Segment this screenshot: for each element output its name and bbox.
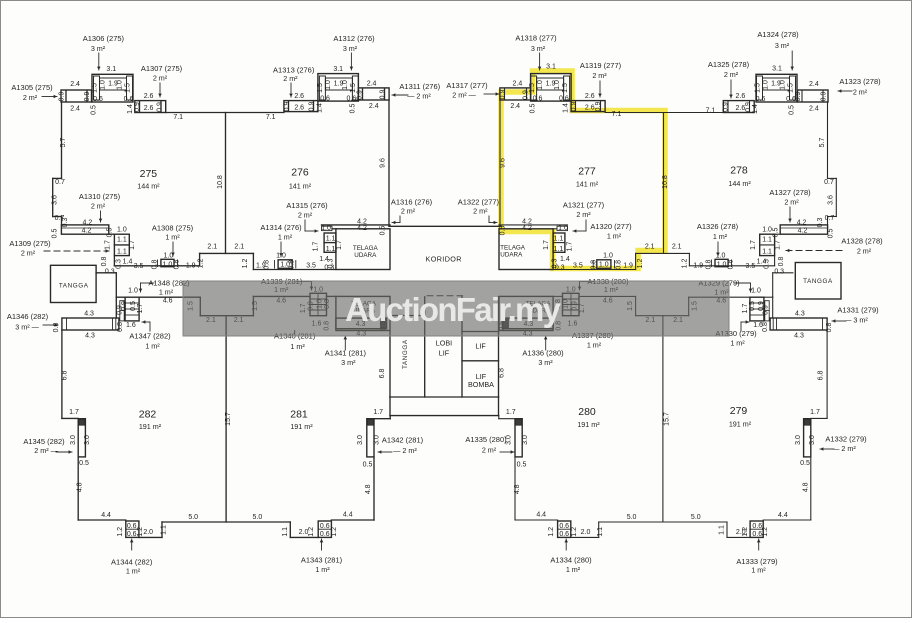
svg-text:TANGGA: TANGGA [59, 283, 89, 290]
svg-text:1 m²: 1 m² [278, 233, 293, 242]
svg-text:LIF: LIF [439, 349, 450, 358]
svg-text:KORIDOR: KORIDOR [426, 255, 462, 264]
highlight unit 277 [501, 71, 665, 269]
svg-text:— 2 m²: — 2 m² [407, 92, 431, 101]
svg-text:275: 275 [140, 168, 158, 180]
svg-text:2 m²: 2 m² [592, 71, 607, 80]
svg-text:0.6: 0.6 [93, 96, 103, 103]
svg-text:1.2: 1.2 [198, 259, 205, 269]
svg-text:0.5: 0.5 [91, 105, 98, 115]
svg-text:0.6: 0.6 [320, 96, 330, 103]
svg-text:2.4: 2.4 [809, 81, 819, 88]
svg-text:2.6: 2.6 [144, 105, 154, 112]
svg-text:1.0: 1.0 [128, 287, 138, 294]
svg-text:— 2 m²: — 2 m² [832, 444, 856, 453]
svg-text:0.3: 0.3 [555, 265, 565, 272]
svg-text:2.1: 2.1 [234, 244, 244, 251]
svg-text:0.8: 0.8 [117, 322, 124, 332]
svg-text:3 m² —: 3 m² — [15, 323, 39, 332]
svg-text:1.0: 1.0 [117, 227, 127, 234]
svg-text:0.8: 0.8 [826, 323, 833, 333]
svg-text:1.0: 1.0 [342, 80, 349, 90]
svg-text:3.5: 3.5 [746, 263, 756, 270]
svg-text:1 m²: 1 m² [713, 232, 728, 241]
svg-text:1.1: 1.1 [762, 237, 772, 244]
svg-text:5.0: 5.0 [691, 514, 701, 521]
svg-text:1.7: 1.7 [69, 409, 79, 416]
svg-text:0.6: 0.6 [347, 96, 357, 103]
svg-text:AuctionFair.my: AuctionFair.my [345, 291, 562, 328]
svg-text:1.5: 1.5 [317, 83, 324, 93]
svg-text:282: 282 [139, 409, 157, 421]
svg-text:0.5: 0.5 [517, 462, 527, 469]
svg-text:2 m²: 2 m² [724, 70, 739, 79]
svg-text:0.3: 0.3 [105, 269, 115, 276]
svg-text:1.7: 1.7 [313, 242, 320, 252]
svg-text:9.6: 9.6 [500, 158, 507, 168]
svg-text:1.7: 1.7 [373, 409, 383, 416]
svg-text:1.0: 1.0 [751, 287, 761, 294]
svg-text:0.5: 0.5 [500, 226, 507, 236]
svg-text:0.9: 0.9 [821, 92, 828, 102]
svg-text:0.9: 0.9 [380, 90, 387, 100]
svg-text:10.8: 10.8 [217, 175, 224, 189]
svg-text:A1346 (282): A1346 (282) [7, 312, 49, 321]
svg-text:0.5: 0.5 [800, 460, 810, 467]
svg-text:144 m²: 144 m² [728, 179, 751, 188]
svg-text:A1306 (275): A1306 (275) [83, 34, 125, 43]
svg-text:1.0: 1.0 [558, 225, 568, 232]
svg-text:9.6: 9.6 [380, 158, 387, 168]
svg-text:1.0: 1.0 [163, 261, 173, 268]
svg-text:1.5: 1.5 [125, 83, 132, 93]
svg-text:A1336 (280): A1336 (280) [522, 349, 564, 358]
svg-text:2.6: 2.6 [585, 93, 595, 100]
svg-text:1.1: 1.1 [117, 249, 127, 256]
svg-text:1 m²: 1 m² [587, 341, 602, 350]
svg-text:3 m²: 3 m² [531, 44, 546, 53]
svg-text:1.2: 1.2 [242, 259, 249, 269]
svg-text:2.4: 2.4 [369, 103, 379, 110]
svg-text:4.8: 4.8 [76, 482, 83, 492]
svg-text:1.0: 1.0 [603, 252, 613, 259]
svg-text:7.1: 7.1 [173, 114, 183, 121]
svg-text:0.8: 0.8 [728, 260, 735, 270]
svg-text:1.5: 1.5 [529, 83, 536, 93]
svg-text:0.3: 0.3 [62, 218, 69, 228]
svg-text:0.6: 0.6 [124, 96, 134, 103]
svg-text:2 m²: 2 m² [23, 93, 38, 102]
svg-text:4.4: 4.4 [778, 512, 788, 519]
units 280-279 block outline [499, 273, 827, 538]
svg-text:TELAGA: TELAGA [353, 245, 379, 252]
svg-text:0.9: 0.9 [308, 102, 315, 112]
svg-text:1 m²: 1 m² [607, 232, 622, 241]
svg-text:2.4: 2.4 [513, 81, 523, 88]
svg-text:4.2: 4.2 [522, 225, 532, 232]
svg-text:3 m²: 3 m² [775, 41, 790, 50]
svg-text:0.5: 0.5 [51, 229, 58, 239]
svg-text:1.4: 1.4 [123, 259, 133, 266]
svg-text:1.1: 1.1 [160, 525, 167, 535]
svg-text:2 m²: 2 m² [853, 88, 868, 97]
svg-text:1.0: 1.0 [717, 261, 727, 268]
units 282-281 block outline [62, 273, 390, 538]
svg-text:2 m²: 2 m² [784, 198, 799, 207]
svg-text:0.9: 0.9 [84, 92, 91, 102]
svg-text:1.7: 1.7 [543, 240, 550, 250]
svg-text:A1310 (275): A1310 (275) [79, 192, 121, 201]
svg-text:0.9: 0.9 [571, 102, 578, 112]
svg-text:A1325 (278): A1325 (278) [708, 60, 750, 69]
svg-text:1 m²: 1 m² [145, 342, 160, 351]
svg-text:1.7: 1.7 [137, 304, 144, 314]
svg-text:2.6: 2.6 [294, 93, 304, 100]
svg-text:3.0: 3.0 [522, 435, 529, 445]
svg-text:1.2: 1.2 [681, 259, 688, 269]
svg-text:0.6: 0.6 [320, 531, 330, 538]
svg-text:0.6: 0.6 [559, 531, 569, 538]
svg-text:191 m²: 191 m² [729, 420, 752, 429]
svg-text:1.5: 1.5 [755, 83, 762, 93]
svg-text:1.4: 1.4 [757, 259, 767, 266]
svg-text:280: 280 [578, 406, 596, 418]
units 275-276 block outline [53, 74, 390, 270]
svg-text:4.8: 4.8 [803, 482, 810, 492]
svg-text:1.1: 1.1 [282, 527, 289, 537]
svg-text:1.6: 1.6 [126, 322, 136, 329]
svg-text:2.0: 2.0 [581, 529, 591, 536]
svg-text:0.9: 0.9 [500, 90, 507, 100]
svg-text:279: 279 [730, 405, 748, 417]
svg-text:1.9: 1.9 [546, 81, 556, 88]
svg-text:0.9: 0.9 [723, 102, 730, 112]
svg-text:A1308 (275): A1308 (275) [152, 224, 194, 233]
svg-text:0.9: 0.9 [357, 90, 364, 100]
svg-text:1.5: 1.5 [92, 83, 99, 93]
svg-text:1.1: 1.1 [554, 236, 564, 243]
svg-text:0.6: 0.6 [786, 96, 796, 103]
svg-text:0.8: 0.8 [101, 257, 108, 267]
svg-text:1.5: 1.5 [562, 83, 569, 93]
svg-text:1.2: 1.2 [117, 527, 124, 537]
svg-text:191 m²: 191 m² [290, 422, 313, 431]
svg-text:2.4: 2.4 [367, 81, 377, 88]
svg-text:3.0: 3.0 [357, 435, 364, 445]
svg-text:1.4: 1.4 [563, 103, 570, 113]
svg-text:UDARA: UDARA [354, 252, 377, 259]
svg-text:3.6: 3.6 [828, 195, 835, 205]
svg-text:1.2: 1.2 [637, 259, 644, 269]
svg-text:1.7: 1.7 [506, 409, 516, 416]
svg-text:2 m²: 2 m² [576, 210, 591, 219]
svg-text:3 m²: 3 m² [91, 44, 106, 53]
svg-text:1.0: 1.0 [762, 227, 772, 234]
leader arrowheads [54, 67, 842, 543]
svg-text:1.2: 1.2 [548, 527, 555, 537]
svg-text:0.5: 0.5 [379, 226, 386, 236]
svg-text:3 m²: 3 m² [343, 44, 358, 53]
svg-text:3.0: 3.0 [795, 435, 802, 445]
svg-text:1.7: 1.7 [336, 240, 343, 250]
svg-text:1.2: 1.2 [331, 527, 338, 537]
svg-text:2.4: 2.4 [809, 106, 819, 113]
svg-text:2 m² —: 2 m² — [34, 446, 58, 455]
svg-text:191 m²: 191 m² [577, 420, 600, 429]
svg-text:A1320 (277): A1320 (277) [590, 222, 632, 231]
svg-text:A1331 (279): A1331 (279) [837, 306, 879, 315]
svg-text:1.1: 1.1 [326, 236, 336, 243]
svg-text:281: 281 [290, 409, 308, 421]
svg-text:4.3: 4.3 [795, 311, 805, 318]
svg-text:4.3: 4.3 [85, 333, 95, 340]
svg-text:2 m²: 2 m² [857, 247, 872, 256]
svg-text:0.9: 0.9 [758, 301, 765, 311]
svg-text:3.0: 3.0 [809, 435, 816, 445]
svg-text:0.6: 0.6 [559, 96, 569, 103]
svg-text:1 m²: 1 m² [751, 566, 766, 575]
svg-text:4.6: 4.6 [163, 298, 173, 305]
svg-text:0.8: 0.8 [264, 260, 271, 270]
svg-text:0.8: 0.8 [174, 260, 181, 270]
svg-text:0.9: 0.9 [59, 92, 66, 102]
svg-text:1.2: 1.2 [762, 527, 769, 537]
svg-text:2.6: 2.6 [294, 104, 304, 111]
svg-text:0.9: 0.9 [284, 102, 291, 112]
svg-text:4.3: 4.3 [84, 311, 94, 318]
svg-text:0.6: 0.6 [752, 523, 762, 530]
svg-text:3.0: 3.0 [374, 435, 381, 445]
svg-text:2.1: 2.1 [645, 244, 655, 251]
svg-text:4.2: 4.2 [797, 220, 807, 227]
svg-text:4.2: 4.2 [82, 228, 92, 235]
svg-text:A1341 (281): A1341 (281) [325, 349, 367, 358]
corridor, stair and lift core [51, 226, 842, 415]
svg-text:TANGGA: TANGGA [803, 278, 833, 285]
svg-text:5.7: 5.7 [819, 138, 826, 148]
svg-text:6.8: 6.8 [62, 371, 69, 381]
svg-text:0.5: 0.5 [828, 229, 835, 239]
svg-text:2 m²: 2 m² [298, 211, 313, 220]
svg-text:3.6: 3.6 [51, 195, 58, 205]
svg-text:2.4: 2.4 [510, 103, 520, 110]
svg-text:6.8: 6.8 [818, 371, 825, 381]
svg-text:1.0: 1.0 [599, 262, 609, 269]
svg-text:0.6: 0.6 [752, 531, 762, 538]
leader lines and dashed pointers [42, 51, 852, 550]
svg-text:A1318 (277): A1318 (277) [515, 34, 557, 43]
svg-text:1.1: 1.1 [762, 249, 772, 256]
svg-text:A1334 (280): A1334 (280) [550, 556, 592, 565]
svg-text:0.5: 0.5 [79, 460, 89, 467]
svg-text:2 m²: 2 m² [401, 207, 416, 216]
svg-text:0.9: 0.9 [523, 90, 530, 100]
svg-text:2.4: 2.4 [70, 106, 80, 113]
svg-text:1.9: 1.9 [693, 262, 703, 269]
svg-text:1.0: 1.0 [763, 80, 770, 90]
svg-text:1.7: 1.7 [567, 242, 574, 252]
svg-text:2.0: 2.0 [143, 529, 153, 536]
svg-text:1.0: 1.0 [321, 225, 331, 232]
svg-text:191 m²: 191 m² [139, 422, 162, 431]
svg-text:0.9: 0.9 [121, 301, 128, 311]
svg-text:1.7: 1.7 [775, 240, 782, 250]
svg-text:A1335 (280): A1335 (280) [465, 435, 507, 444]
svg-text:0.5: 0.5 [530, 104, 537, 114]
svg-text:A1342 (281): A1342 (281) [382, 436, 424, 445]
svg-text:2.6: 2.6 [585, 104, 595, 111]
svg-text:BOMBA: BOMBA [468, 380, 494, 389]
svg-text:3 m²: 3 m² [341, 358, 356, 367]
svg-text:1.5: 1.5 [788, 83, 795, 93]
svg-text:1.2: 1.2 [571, 527, 578, 537]
svg-text:1 m²: 1 m² [165, 233, 180, 242]
svg-text:0.5: 0.5 [107, 228, 114, 238]
svg-text:0.7: 0.7 [824, 179, 834, 186]
svg-text:2.0: 2.0 [299, 529, 309, 536]
svg-text:1.2: 1.2 [308, 527, 315, 537]
svg-text:0.8: 0.8 [151, 260, 158, 270]
svg-text:2 m²: 2 m² [91, 202, 106, 211]
svg-text:2 m²: 2 m² [482, 446, 497, 455]
svg-text:0.9: 0.9 [157, 102, 164, 112]
svg-text:0.9: 0.9 [595, 102, 602, 112]
svg-text:2.1: 2.1 [207, 244, 217, 251]
svg-text:A1311 (276): A1311 (276) [399, 82, 440, 91]
svg-text:0.6: 0.6 [559, 523, 569, 530]
svg-text:0.3: 0.3 [116, 259, 123, 269]
svg-text:3.1: 3.1 [333, 66, 343, 73]
svg-text:15.7: 15.7 [225, 412, 232, 426]
svg-text:1.4: 1.4 [127, 104, 134, 114]
svg-text:1.4: 1.4 [752, 104, 759, 114]
svg-text:0.7: 0.7 [55, 179, 65, 186]
svg-text:A1343 (281): A1343 (281) [301, 556, 343, 565]
svg-text:141 m²: 141 m² [289, 182, 312, 191]
svg-text:2 m²: 2 m² [153, 74, 168, 83]
svg-text:7.1: 7.1 [612, 111, 622, 118]
svg-text:1 m²: 1 m² [566, 565, 581, 574]
svg-text:2.4: 2.4 [70, 81, 80, 88]
svg-text:A1317 (277): A1317 (277) [446, 81, 488, 90]
svg-text:2.6: 2.6 [736, 105, 746, 112]
svg-text:2 m² —: 2 m² — [452, 91, 476, 100]
svg-text:A1316 (276): A1316 (276) [391, 198, 433, 207]
svg-text:A1347 (282): A1347 (282) [129, 332, 171, 341]
svg-text:A1328 (278): A1328 (278) [841, 237, 883, 246]
svg-text:3.0: 3.0 [70, 435, 77, 445]
svg-text:1 m²: 1 m² [730, 339, 745, 348]
svg-text:0.6: 0.6 [533, 96, 543, 103]
svg-text:2 m²: 2 m² [21, 249, 36, 258]
svg-text:4.8: 4.8 [365, 484, 372, 494]
svg-text:1.7: 1.7 [750, 240, 757, 250]
svg-text:0.5: 0.5 [772, 228, 779, 238]
svg-text:4.3: 4.3 [794, 333, 804, 340]
svg-text:0.5: 0.5 [350, 104, 357, 114]
svg-text:1.0: 1.0 [325, 80, 332, 90]
svg-text:3.5: 3.5 [134, 263, 144, 270]
svg-text:1 m²: 1 m² [290, 342, 305, 351]
svg-text:A1324 (278): A1324 (278) [757, 30, 799, 39]
svg-text:0.9: 0.9 [745, 102, 752, 112]
svg-text:4.4: 4.4 [343, 512, 353, 519]
svg-text:2.1: 2.1 [672, 244, 682, 251]
svg-text:0.8: 0.8 [591, 260, 598, 270]
svg-text:6.8: 6.8 [499, 368, 506, 378]
svg-text:A1332 (279): A1332 (279) [825, 435, 867, 444]
svg-text:278: 278 [730, 165, 748, 177]
svg-text:1 m²: 1 m² [315, 565, 330, 574]
svg-text:1.4: 1.4 [560, 256, 570, 263]
svg-text:3.1: 3.1 [772, 66, 782, 73]
svg-text:3 m²: 3 m² [538, 358, 553, 367]
svg-text:1.6: 1.6 [753, 322, 763, 329]
svg-text:A1309 (275): A1309 (275) [9, 239, 51, 248]
svg-text:0.6: 0.6 [756, 96, 766, 103]
svg-text:0.8: 0.8 [288, 260, 295, 270]
svg-text:1.1: 1.1 [719, 525, 726, 535]
svg-text:A1326 (278): A1326 (278) [697, 222, 739, 231]
svg-text:1.7: 1.7 [105, 240, 112, 250]
svg-text:A1327 (278): A1327 (278) [769, 188, 811, 197]
svg-text:144 m²: 144 m² [137, 182, 160, 191]
svg-text:0.9: 0.9 [134, 102, 141, 112]
svg-text:1.1: 1.1 [597, 527, 604, 537]
svg-text:— 2 m²: — 2 m² [393, 446, 417, 455]
svg-text:0.3: 0.3 [774, 269, 784, 276]
svg-text:0.3: 0.3 [817, 218, 824, 228]
svg-text:3.1: 3.1 [106, 66, 116, 73]
svg-text:2 m²: 2 m² [473, 207, 488, 216]
svg-text:— 3 m²: — 3 m² [844, 316, 868, 325]
svg-text:3.5: 3.5 [573, 263, 583, 270]
svg-text:TANGGA: TANGGA [402, 339, 409, 369]
watermark band [183, 281, 729, 336]
svg-text:15.7: 15.7 [664, 412, 671, 426]
svg-text:4.8: 4.8 [514, 484, 521, 494]
svg-text:2.6: 2.6 [144, 93, 154, 100]
svg-text:A1314 (276): A1314 (276) [260, 223, 302, 232]
svg-text:1 m²: 1 m² [126, 567, 141, 576]
svg-text:0.7: 0.7 [825, 215, 835, 222]
svg-text:276: 276 [291, 167, 309, 179]
svg-text:10.8: 10.8 [662, 175, 669, 189]
svg-text:LIF: LIF [475, 342, 486, 351]
svg-text:1.0: 1.0 [537, 80, 544, 90]
svg-text:UDARA: UDARA [500, 252, 523, 259]
svg-text:6.8: 6.8 [379, 369, 386, 379]
svg-text:2 m²: 2 m² [283, 74, 298, 83]
svg-text:A1312 (276): A1312 (276) [333, 34, 375, 43]
svg-text:1.9: 1.9 [771, 81, 781, 88]
svg-text:5.7: 5.7 [60, 138, 67, 148]
svg-text:1.4: 1.4 [317, 103, 324, 113]
svg-text:A1321 (277): A1321 (277) [563, 201, 605, 210]
svg-text:A1345 (282): A1345 (282) [23, 437, 65, 446]
svg-text:277: 277 [578, 166, 596, 178]
svg-text:4.2: 4.2 [798, 228, 808, 235]
svg-text:1.0: 1.0 [716, 253, 726, 260]
svg-text:1.7: 1.7 [742, 304, 749, 314]
svg-text:TELAGA: TELAGA [500, 245, 526, 252]
svg-text:0.8: 0.8 [705, 260, 712, 270]
svg-text:1.0: 1.0 [276, 252, 286, 259]
svg-text:1.1: 1.1 [117, 237, 127, 244]
svg-text:3.5: 3.5 [306, 263, 316, 270]
svg-text:A1315 (276): A1315 (276) [286, 201, 328, 210]
svg-text:1.7: 1.7 [129, 240, 136, 250]
